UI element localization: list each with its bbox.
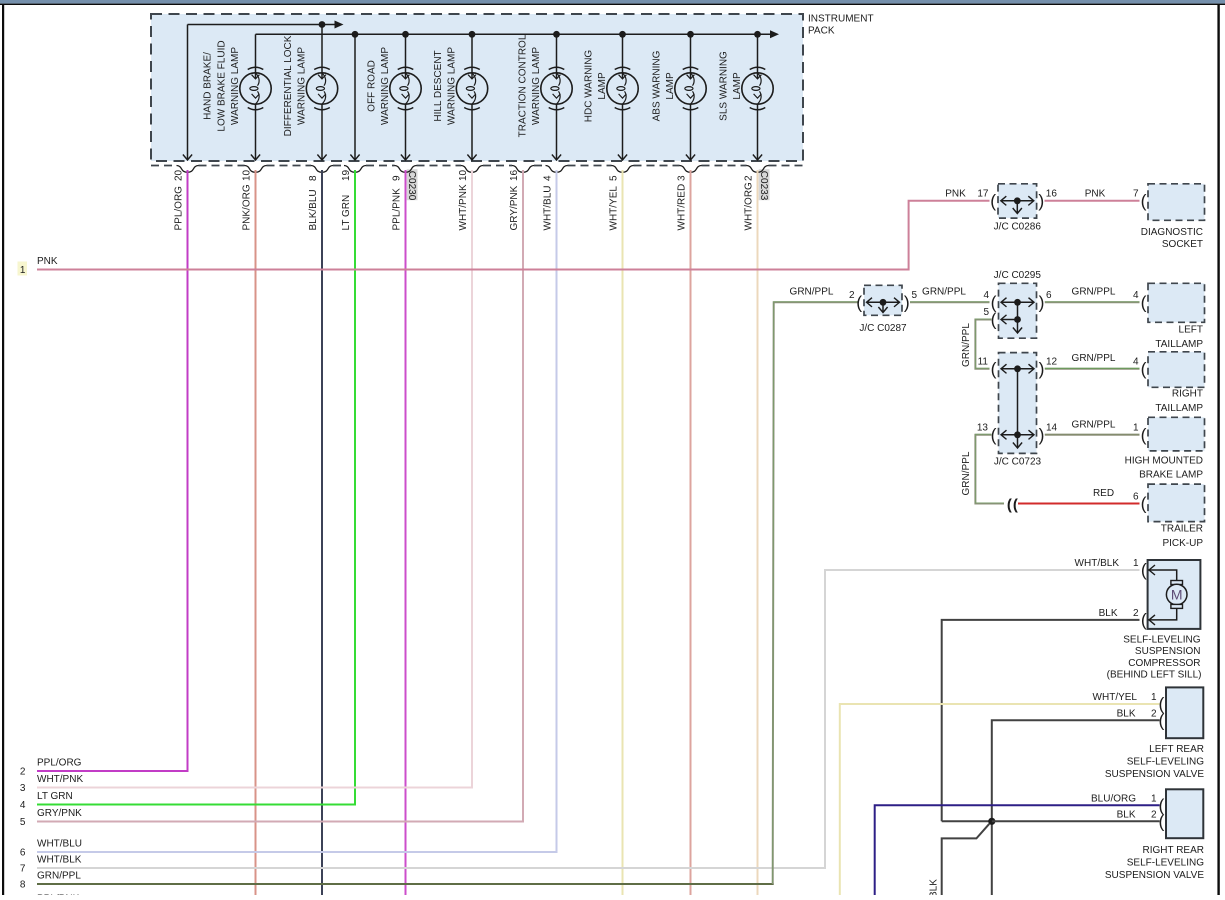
svg-text:OFF ROAD: OFF ROAD [366,60,377,112]
wire WHT/PNK pin10 to row 3 [37,170,472,788]
svg-text:14: 14 [1046,422,1058,433]
svg-text:10: 10 [458,169,469,181]
connector bump pin x=322.0 [311,166,333,173]
left rear self-leveling suspension valve box [1166,687,1203,738]
svg-text:9: 9 [391,175,402,181]
svg-text:GRN/PPL: GRN/PPL [922,286,966,297]
svg-text:HAND BRAKE/: HAND BRAKE/ [203,52,214,120]
wire PPL/PNK pin9 down off page [405,170,407,895]
svg-text:WHT/BLK: WHT/BLK [1075,558,1120,569]
svg-text:): ) [1039,359,1045,379]
wire LT GRN pin19 to row 4 [37,170,355,805]
svg-text:J/C C0723: J/C C0723 [994,457,1042,468]
connector bump pin x=255.5 [245,166,267,173]
svg-text:SELF-LEVELING: SELF-LEVELING [1127,757,1204,768]
self-leveling suspension compressor box [1148,560,1201,629]
junction bus2 x=405.5 [402,31,409,38]
wire BLK/BLU pin8 down off page [321,170,323,895]
svg-text:WHT/ORG: WHT/ORG [743,182,754,231]
svg-text:WHT/PNK: WHT/PNK [458,184,469,230]
high mounted brake lamp [1148,417,1205,451]
bus wire 1 (pin20 to diff-lock lamp) [188,24,337,26]
connector bump pin x=757.5 [747,166,769,173]
wire BLK corner to junction [942,820,992,822]
junction connector J/C C0287 [864,285,902,315]
J/C C0723 internal bus pins 13-14 [1001,434,1034,436]
svg-text:C0233: C0233 [758,171,769,201]
wire PNK C0286 pin16 to diagnostic socket [1045,200,1140,202]
svg-text:RIGHT REAR: RIGHT REAR [1143,845,1205,856]
svg-text:PPL/ORG: PPL/ORG [173,186,184,231]
svg-text:BRAKE LAMP: BRAKE LAMP [1139,470,1203,481]
svg-text:1: 1 [1151,692,1157,703]
warning lamp 8: SLS WARNING LAMP [742,34,773,159]
svg-text:WARNING LAMP: WARNING LAMP [531,47,542,125]
wire BLK from bottom joining junction (diagonal) [942,824,990,895]
wire GRN/PPL row8 [37,883,774,885]
svg-text:4: 4 [983,290,989,301]
svg-text:LT GRN: LT GRN [341,195,352,231]
svg-text:17: 17 [977,188,989,199]
wire WHT/YEL from bottom to left rear valve pin1 [840,704,1160,895]
svg-text:): ) [1038,191,1044,211]
svg-text:(: ( [1013,497,1018,514]
svg-text:2: 2 [1151,810,1157,821]
svg-text:1: 1 [1133,558,1139,569]
svg-text:1: 1 [1151,793,1157,804]
svg-text:COMPRESSOR: COMPRESSOR [1128,658,1200,669]
svg-text:20: 20 [173,169,184,181]
junction connector J/C C0286 [998,184,1037,218]
svg-text:BLU/ORG: BLU/ORG [1091,793,1136,804]
junction bus2 x=556.5 [553,31,560,38]
right rear self-leveling suspension valve box [1166,789,1203,838]
svg-text:ABS WARNING: ABS WARNING [651,50,662,121]
svg-text:10: 10 [241,169,252,181]
wire RED splice to trailer pick-up [1018,503,1140,505]
svg-text:WHT/RED: WHT/RED [676,184,687,231]
svg-text:12: 12 [1046,356,1058,367]
diagnostic socket [1148,184,1205,221]
C0723 internal vertical link and bottom arrow [1017,369,1019,435]
svg-text:4: 4 [1133,356,1139,367]
svg-text:TAILLAMP: TAILLAMP [1155,403,1203,414]
svg-text:PNK/ORG: PNK/ORG [241,184,252,230]
junction connector J/C C0723 [999,353,1037,454]
J/C C0295 internal bus pins 4-6 [1001,301,1034,303]
svg-text:WHT/BLU: WHT/BLU [37,839,82,850]
svg-text:(: ( [1141,494,1147,514]
svg-text:INSTRUMENT: INSTRUMENT [808,14,874,25]
svg-text:BLK: BLK [1117,810,1136,821]
J/C C0287 internal bus [867,301,900,303]
svg-text:(BEHIND LEFT SILL): (BEHIND LEFT SILL) [1107,670,1202,681]
svg-text:GRN/PPL: GRN/PPL [1072,419,1116,430]
wire GRY/PNK pin16 to row 5 [37,170,523,822]
left page border [2,4,4,895]
svg-text:(: ( [1141,425,1147,445]
svg-text:GRN/PPL: GRN/PPL [961,323,972,367]
wire pin19 drop from bus2 [354,34,356,159]
svg-text:13: 13 [977,422,989,433]
svg-text:DIFFERENTIAL LOCK: DIFFERENTIAL LOCK [283,35,294,136]
svg-text:WHT/PNK: WHT/PNK [37,774,83,785]
svg-text:TAILLAMP: TAILLAMP [1155,339,1203,350]
svg-text:GRN/PPL: GRN/PPL [790,286,834,297]
svg-text:(: ( [1141,292,1147,312]
svg-text:PNK: PNK [945,188,966,199]
junction bus2 x=472 [469,31,476,38]
svg-text:PPL/PNK: PPL/PNK [391,188,402,231]
J/C C0286 internal bus [1001,200,1034,202]
wire WHT/BLU pin4 to row 6 [37,170,557,852]
wire BLK junction to right rear valve pin2 [992,820,1160,822]
svg-text:LEFT: LEFT [1179,324,1203,335]
top blue header bar [0,0,1225,4]
svg-text:J/C C0295: J/C C0295 [994,270,1042,281]
connector strip dashed line C0230/C0233 [151,165,177,167]
svg-text:2: 2 [20,767,26,778]
wire PNK row1 to J/C C0286 [37,201,990,270]
wire PPL/ORG pin20 to row 2 [37,170,188,771]
svg-text:(: ( [1141,610,1147,630]
svg-text:16: 16 [509,169,520,181]
wire GRN/PPL C0723 pin13 to splice [975,435,1004,504]
svg-text:(: ( [1007,497,1012,514]
svg-text:SUSPENSION VALVE: SUSPENSION VALVE [1105,870,1204,881]
svg-text:LAMP: LAMP [665,72,676,100]
warning lamp 4: HILL DESCENT WARNING LAMP [456,34,487,159]
connector bump pin x=622.5 [612,166,634,173]
svg-text:SUSPENSION VALVE: SUSPENSION VALVE [1105,769,1204,780]
svg-text:3: 3 [676,175,687,181]
svg-text:LAMP: LAMP [732,72,743,100]
svg-text:RIGHT: RIGHT [1172,388,1203,399]
svg-text:LEFT REAR: LEFT REAR [1149,744,1204,755]
wire PNK/ORG pin10 down off page [255,170,257,895]
warning lamp 6: HDC WARNING LAMP [607,34,638,159]
svg-text:GRN/PPL: GRN/PPL [961,451,972,495]
svg-text:RED: RED [1093,488,1114,499]
svg-text:SELF-LEVELING: SELF-LEVELING [1123,634,1200,645]
svg-text:C0230: C0230 [406,171,417,201]
svg-text:19: 19 [341,169,352,181]
svg-text:J/C C0286: J/C C0286 [994,221,1042,232]
warning lamp 7: ABS WARNING LAMP [675,34,706,159]
svg-text:PNK: PNK [1085,188,1106,199]
connector bump pin x=556.5 [546,166,568,173]
svg-text:5: 5 [608,175,619,181]
svg-text:2: 2 [1133,608,1139,619]
connector bump pin x=187.5 [177,166,199,173]
row number highlight 1 [18,262,28,276]
svg-text:(: ( [1141,560,1147,580]
wire WHT/ORG pin2 down off page [757,170,759,895]
svg-text:): ) [1039,425,1045,445]
svg-text:(: ( [991,359,997,379]
svg-text:6: 6 [1046,290,1052,301]
svg-text:WHT/YEL: WHT/YEL [1093,692,1138,703]
svg-text:8: 8 [20,880,26,891]
junction bus2 x=622.5 [619,31,626,38]
svg-text:SOCKET: SOCKET [1162,239,1203,250]
svg-text:BLK: BLK [1099,608,1118,619]
svg-text:6: 6 [20,848,26,859]
svg-text:8: 8 [308,175,319,181]
wire GRN/PPL C0723 pin12 to right taillamp [1045,368,1140,370]
svg-text:(: ( [856,292,862,312]
svg-text:6: 6 [1133,492,1139,503]
svg-text:4: 4 [1133,290,1139,301]
svg-text:GRN/PPL: GRN/PPL [1072,286,1116,297]
svg-text:GRN/PPL: GRN/PPL [1072,353,1116,364]
wire GRN/PPL C0723 pin14 to high mounted brake lamp [1045,434,1140,436]
compressor internal wiring and motor M [1148,570,1177,620]
svg-text:(: ( [1141,359,1147,379]
bus wire 2 (hand-brake lamp to other lamps) [256,33,772,35]
wire WHT/YEL pin5 down off page [622,170,624,895]
connector bump pin x=690.5 [680,166,702,173]
svg-text:1: 1 [20,265,26,276]
svg-text:SLS WARNING: SLS WARNING [718,51,729,121]
connector name C0230 highlight [407,169,418,200]
svg-text:2: 2 [743,175,754,181]
wire BLK left rear valve pin2 down off page [992,720,1160,895]
svg-text:BLK/BLU: BLK/BLU [308,189,319,230]
svg-text:HILL DESCENT: HILL DESCENT [433,50,444,121]
svg-text:HIGH MOUNTED: HIGH MOUNTED [1125,455,1203,466]
svg-text:DIAGNOSTIC: DIAGNOSTIC [1141,227,1203,238]
connector name C0233 highlight [759,169,770,200]
connector bump pin x=355.0 [344,166,366,173]
svg-text:M: M [1171,587,1183,603]
svg-text:(: ( [991,425,997,445]
right page border [1217,4,1219,895]
svg-text:5: 5 [912,290,918,301]
wire GRN/PPL riser to J/C C0287 pin2 [773,302,858,884]
junction connector J/C C0295 [999,283,1037,338]
svg-text:16: 16 [1046,188,1058,199]
J/C C0723 internal bus pins 11-12 [1001,368,1034,370]
svg-text:2: 2 [1151,708,1157,719]
svg-text:4: 4 [20,800,26,811]
svg-text:WHT/BLK: WHT/BLK [37,855,82,866]
svg-text:(: ( [991,310,997,330]
svg-text:WHT/BLU: WHT/BLU [542,186,553,231]
svg-text:GRN/PPL: GRN/PPL [37,871,81,882]
svg-text:BLK: BLK [1117,708,1136,719]
wire BLK compressor pin2 down [942,620,1140,821]
right taillamp [1148,352,1205,388]
svg-text:GRY/PNK: GRY/PNK [37,808,82,819]
warning lamp 1: HAND BRAKE/ LOW BRAKE FLUID WARNING LAMP [240,34,271,159]
svg-text:(: ( [990,191,996,211]
svg-text:WARNING LAMP: WARNING LAMP [380,47,391,125]
C0295 pin5 internal branch [1001,319,1018,321]
trailer pick-up [1148,484,1205,521]
wire GRN/PPL C0295 pin5 to C0723 pin11 [975,320,991,369]
svg-text:5: 5 [983,307,989,318]
svg-text:SUSPENSION: SUSPENSION [1135,646,1201,657]
svg-text:LOW BRAKE FLUID: LOW BRAKE FLUID [216,40,227,131]
wire WHT/BLK row7 to compressor pin1 [37,570,1140,868]
warning lamp 5: TRACTION CONTROL WARNING LAMP [541,34,572,159]
svg-text:PNK: PNK [37,256,58,267]
svg-text:7: 7 [1133,188,1139,199]
svg-text:2: 2 [849,290,855,301]
svg-text:SELF-LEVELING: SELF-LEVELING [1127,857,1204,868]
wire GRN/PPL C0295 pin6 to left taillamp [1045,301,1140,303]
connector bump pin x=472.0 [461,166,483,173]
svg-text:TRACTION CONTROL: TRACTION CONTROL [517,34,528,137]
wire BLU/ORG from bottom to right rear valve pin1 [875,805,1160,895]
svg-text:LT GRN: LT GRN [37,791,73,802]
left taillamp [1148,283,1205,322]
svg-text:(: ( [1141,191,1147,211]
wire WHT/RED pin3 down off page [690,170,692,895]
svg-text:HDC WARNING: HDC WARNING [583,50,594,123]
connector bump pin x=405.5 [395,166,417,173]
svg-text:WARNING LAMP: WARNING LAMP [230,47,241,125]
svg-text:): ) [1039,292,1045,312]
svg-text:WARNING LAMP: WARNING LAMP [297,47,308,125]
warning lamp 3: OFF ROAD WARNING LAMP [390,34,421,159]
svg-text:): ) [904,292,910,312]
junction bus2 x=757.5 [754,31,761,38]
svg-text:11: 11 [978,356,989,367]
svg-text:1: 1 [1133,422,1139,433]
svg-text:PICK-UP: PICK-UP [1162,538,1203,549]
svg-text:PACK: PACK [808,26,835,37]
wire pin20 drop from bus1 [187,25,189,160]
svg-text:3: 3 [20,783,26,794]
svg-text:BLK: BLK [929,879,940,895]
junction bus2 x=355 [352,31,359,38]
connector bump pin x=523.0 [512,166,534,173]
svg-text:WHT/YEL: WHT/YEL [608,186,619,231]
svg-text:4: 4 [542,175,553,181]
svg-text:LAMP: LAMP [597,72,608,100]
svg-text:TRAILER: TRAILER [1161,523,1203,534]
warning lamp 2: DIFFERENTIAL LOCK WARNING LAMP [306,25,337,160]
svg-text:5: 5 [20,817,26,828]
svg-text:J/C C0287: J/C C0287 [859,323,907,334]
svg-text:7: 7 [20,864,26,875]
svg-text:WARNING LAMP: WARNING LAMP [447,47,458,125]
junction BLK wires [988,818,995,825]
wire GRN/PPL C0287 to C0295 [910,301,990,303]
svg-text:PPL/ORG: PPL/ORG [37,758,82,769]
junction bus2 x=690.5 [687,31,694,38]
instrument pack dashed box [151,14,803,161]
junction bus1/diff-lock lamp [319,21,326,28]
svg-text:GRY/PNK: GRY/PNK [509,185,520,230]
